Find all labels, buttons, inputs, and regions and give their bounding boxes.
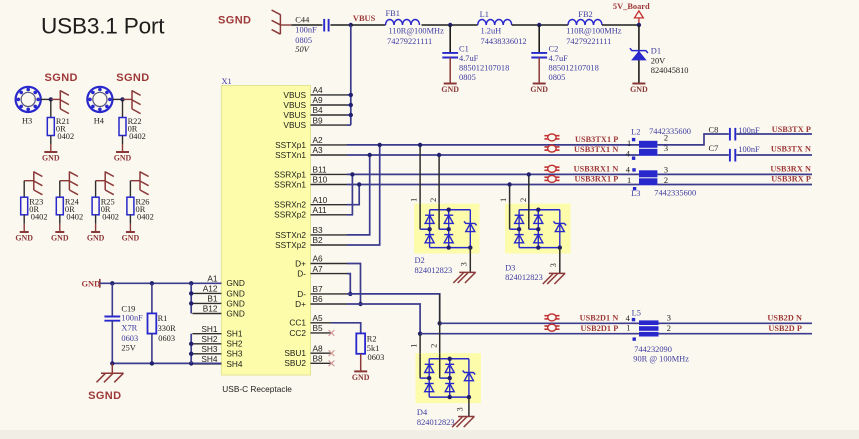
svg-text:0402: 0402 [57,132,74,141]
svg-text:A1: A1 [207,274,218,284]
svg-text:C2: C2 [549,45,559,54]
net label USB3TX1 N [574,145,618,154]
net label USB3TX1 P [575,135,618,144]
svg-text:5k1: 5k1 [367,344,380,353]
svg-text:GND: GND [226,278,244,288]
svg-text:GND: GND [122,234,140,243]
svg-text:B12: B12 [203,304,218,314]
wire TX N [657,154,728,156]
svg-text:B4: B4 [313,105,324,115]
wire USB2 P right [659,333,813,335]
pin B6 D+ [295,294,347,309]
svg-text:A5: A5 [313,313,324,323]
node VBUS [349,14,376,27]
wire [512,24,568,26]
svg-text:B11: B11 [313,165,328,175]
pin B12 GND [192,304,244,319]
svg-text:L5: L5 [632,308,641,317]
svg-text:SH1: SH1 [201,324,218,334]
power port 5V_Board [613,2,650,25]
wire D3 pin2 [527,172,531,203]
svg-text:H3: H3 [22,117,32,126]
pin 3 of D2 [460,248,471,273]
wire [449,25,451,53]
pin A8 SBU1 [284,343,331,358]
SGND label top [218,15,251,27]
svg-text:A4: A4 [313,85,324,95]
svg-text:USB2D N: USB2D N [767,314,802,323]
svg-text:GND: GND [82,280,101,289]
pin label 2 of D4 [430,344,439,348]
svg-text:1: 1 [627,139,631,148]
ground GND under R24 [51,232,69,243]
svg-text:A3: A3 [313,145,324,155]
no-connect X on SBU2 [329,360,335,366]
capacitor C2 4.7uF 885012107018 0805 [531,45,598,82]
svg-text:SGND: SGND [218,15,251,27]
svg-text:744232090: 744232090 [634,345,672,354]
svg-text:824045810: 824045810 [651,66,689,75]
wire [151,334,153,364]
SGND chassis symbol above R25 [96,171,114,194]
svg-text:90R @ 100MHz: 90R @ 100MHz [633,355,689,364]
wire D- A7 join B7 [347,274,352,296]
pin label 2 of D3 [519,198,528,202]
svg-text:C1: C1 [459,45,469,54]
svg-text:A9: A9 [313,95,324,105]
ground GND under C2 [530,84,548,95]
wire [23,215,25,232]
svg-text:50V: 50V [295,45,309,54]
svg-text:B6: B6 [313,294,324,304]
svg-text:SSTXp2: SSTXp2 [275,240,306,250]
wire [360,354,362,371]
SGND chassis symbol at H4 [123,90,141,113]
svg-text:GND: GND [114,154,132,163]
ground GND under C1 [441,84,459,95]
svg-text:USB3TX N: USB3TX N [771,144,811,153]
svg-text:3: 3 [456,407,465,411]
capacitor C19 100nF X7R 0603 25V [104,304,143,352]
svg-text:CC2: CC2 [289,328,306,338]
mounting hole H3 [16,87,41,126]
svg-text:SH1: SH1 [226,329,243,339]
pin B9 VBUS [283,115,347,130]
pin label 2 of D2 [429,198,438,202]
wire SSTXp1 (USB3TX1_P) [347,144,639,146]
svg-text:GND: GND [226,298,244,308]
svg-text:USB3RX1 P: USB3RX1 P [575,175,619,184]
pin A6 D+ [295,254,347,269]
svg-text:GND: GND [226,308,244,318]
no-connect X on CC2 [329,330,335,336]
SGND chassis symbol at H3 [51,90,69,113]
svg-text:74279221111: 74279221111 [387,37,432,46]
wire D+ A6 join B6 [347,264,363,307]
svg-text:USB3TX P: USB3TX P [772,125,811,134]
connector X1 USB-C Receptacle [221,77,310,394]
svg-text:100nF: 100nF [295,26,317,35]
svg-text:0603: 0603 [368,353,385,362]
svg-text:B3: B3 [313,225,324,235]
pin A4 VBUS [283,85,347,100]
svg-text:1: 1 [410,344,419,348]
svg-text:GND: GND [15,234,33,243]
svg-text:330R: 330R [158,324,177,333]
pin A10 SSRXn2 [274,195,347,210]
svg-text:2: 2 [664,134,668,143]
wire [736,154,812,156]
svg-text:A8: A8 [313,343,324,353]
wire VBUS bus [347,25,351,125]
svg-text:20V: 20V [651,57,665,66]
wire SSRXp1 (USB3RX1_N) [347,173,639,175]
wire [113,98,123,100]
pin B4 VBUS [283,105,347,120]
ground GND under R26 [122,232,140,243]
ground GND under R23 [15,232,33,243]
svg-text:B5: B5 [313,323,324,333]
svg-text:0402: 0402 [129,132,146,141]
wire RX P right [657,184,812,186]
wire GND rail [100,282,222,284]
svg-text:0402: 0402 [137,212,154,221]
common mode choke L2 7442335600 [626,127,691,160]
svg-text:VBUS: VBUS [283,120,306,130]
svg-text:SH2: SH2 [226,339,243,349]
wire [449,58,451,84]
node junction at H4 [120,97,124,101]
net label USB3RX N [770,165,811,174]
svg-text:1.2uH: 1.2uH [481,27,502,36]
svg-text:CC1: CC1 [289,318,306,328]
pin SH2 SH2 [192,334,243,349]
wire [602,24,639,26]
wire SSTXn1 (USB3TX1_N) [347,154,639,156]
net label USB2D1 P [581,324,619,333]
ground GND under R2 [352,371,370,382]
resistor R21 0R 0402 [47,117,74,141]
svg-text:B9: B9 [313,115,324,125]
wire [151,283,153,313]
svg-text:USB3TX1 P: USB3TX1 P [575,135,618,144]
svg-text:1: 1 [410,198,419,202]
wire USB2D1_P line [420,333,639,335]
svg-text:0402: 0402 [66,212,83,221]
chassis ground under D2 [453,272,475,283]
ESD diode array D4 824012823 [416,353,481,427]
inductor L1 1.2uH 74438336012 [478,10,527,46]
capacitor C44 100nF 0805 50V [295,16,328,54]
chassis ground under D3 [543,273,565,284]
pin 3 of D3 [549,248,560,274]
svg-text:0805: 0805 [295,36,312,45]
wire SSRXn1 (USB3RX1_P) [347,184,639,186]
svg-text:110R@100MHz: 110R@100MHz [389,27,445,36]
pin A1 GND [192,274,244,289]
svg-text:L3: L3 [631,189,640,198]
svg-text:0805: 0805 [459,73,476,82]
svg-text:0805: 0805 [549,73,566,82]
wire RX N right [657,173,812,175]
svg-text:VBUS: VBUS [353,14,376,23]
wire D2 pin1 [418,143,422,204]
svg-text:B10: B10 [313,175,328,185]
zener diode D1 20V 824045810 [630,46,689,74]
wire [50,136,52,152]
svg-text:C44: C44 [295,16,310,25]
svg-text:2: 2 [430,344,439,348]
wire [59,215,61,232]
wire GND pin bus [189,283,193,313]
wire [122,136,124,152]
node junction at H3 [49,97,53,101]
chassis ground under D4 [452,417,474,428]
pin A7 D- [297,264,347,279]
svg-text:25V: 25V [121,343,135,352]
svg-text:USB2D1 N: USB2D1 N [580,314,619,323]
svg-text:X7R: X7R [121,324,137,333]
svg-text:VBUS: VBUS [283,110,306,120]
svg-text:885012107018: 885012107018 [459,64,509,73]
wire [638,25,640,83]
capacitor C8 100nF [709,126,761,141]
ferrite bead FB1 110R@100MHz 74279221111 [386,9,445,46]
wire SSRXp2 join [347,172,355,215]
pin SH3 SH3 [192,344,243,359]
svg-text:D4: D4 [417,408,428,417]
SGND chassis symbol above R23 [24,171,42,194]
ground GND under D1 [630,84,648,95]
svg-text:D3: D3 [505,264,515,273]
svg-text:1: 1 [499,198,508,202]
no-connect X on SBU1 [329,350,335,356]
wire [422,24,478,26]
net label USB3TX N [771,144,811,153]
node junctions bottom rail [110,361,193,365]
svg-text:824012823: 824012823 [505,273,543,282]
pin SH4 SH4 [192,354,243,369]
svg-text:D+: D+ [295,258,306,268]
wire [129,215,131,232]
net label USB3RX1 P [575,175,619,184]
svg-text:A11: A11 [313,205,328,215]
wire bottom SGND rail [112,362,221,364]
pin label 1 of D4 [410,344,419,348]
svg-text:74279221111: 74279221111 [566,37,611,46]
SGND chassis symbol above R24 [60,171,78,194]
wire SSRXn2 join [347,182,361,204]
wire [330,24,350,26]
svg-text:5V_Board: 5V_Board [613,2,650,11]
pin A5 CC1 [289,313,331,328]
svg-text:A6: A6 [313,254,324,264]
svg-text:A7: A7 [313,264,324,274]
svg-text:USB-C Receptacle: USB-C Receptacle [222,384,292,394]
svg-text:824012823: 824012823 [417,418,455,427]
svg-text:SH3: SH3 [201,344,218,354]
resistor R23 0R 0402 [21,197,48,221]
svg-text:USB3RX P: USB3RX P [771,175,811,184]
pin A9 VBUS [283,95,347,110]
pin B2 SSTXp2 [275,235,347,250]
svg-text:D-: D- [297,289,306,299]
wire [50,99,52,117]
resistor R24 0R 0402 [56,197,83,221]
differential pair marker USB3RX1 N [544,165,559,172]
svg-text:SSRXp1: SSRXp1 [274,169,306,179]
svg-text:3: 3 [549,263,558,267]
svg-text:3: 3 [664,166,668,175]
wire [95,215,97,232]
pin B1 GND [192,294,244,309]
svg-text:0603: 0603 [158,334,175,343]
differential pair marker USB2D1 P [544,324,559,331]
differential pair marker USB3RX1 P [544,175,559,182]
svg-text:USB3RX1 N: USB3RX1 N [574,165,619,174]
SGND label bottom [88,390,121,402]
wire D- to USB2 pair [347,294,442,326]
svg-text:7442335600: 7442335600 [654,189,696,198]
svg-text:L2: L2 [631,128,640,137]
svg-text:SGND: SGND [88,390,121,402]
resistor R1 330R 0603 [148,313,177,343]
svg-text:SSTXp1: SSTXp1 [275,140,306,150]
svg-text:2: 2 [664,176,668,185]
capacitor C7 100nF [709,144,761,162]
svg-text:4.7uF: 4.7uF [549,54,569,63]
svg-text:SSRXp2: SSRXp2 [274,210,306,220]
svg-text:2: 2 [429,198,438,202]
svg-text:C7: C7 [709,144,719,153]
svg-text:USB2D P: USB2D P [768,324,802,333]
svg-text:100nF: 100nF [738,145,760,154]
pin A11 SSRXp2 [274,205,347,220]
svg-text:SGND: SGND [45,72,78,84]
svg-text:0402: 0402 [102,212,119,221]
wire USB2 N right [659,322,813,324]
wire CC1 to R2 [332,323,361,334]
wire [291,24,322,26]
svg-text:4.7uF: 4.7uF [459,54,479,63]
differential pair marker USB3TX1 P [544,134,559,141]
wire SSTXp2 join [347,143,382,245]
svg-text:0603: 0603 [121,334,138,343]
wire SH pin bus [189,334,193,364]
ground GND under R22 [114,152,132,163]
pin 3 of D4 [456,397,469,416]
common mode choke L3 7442335600 [626,166,696,199]
svg-text:GND: GND [42,154,60,163]
node junctions on VBUS bus [349,93,353,118]
svg-text:B1: B1 [207,294,218,304]
svg-text:H4: H4 [94,117,105,126]
svg-text:C8: C8 [709,126,719,135]
svg-text:SH2: SH2 [201,334,218,344]
pin label 1 of D3 [499,198,508,202]
wire D3 pin1 [507,182,511,203]
ground GND under R25 [87,232,105,243]
net label USB2D P [768,324,802,333]
resistor R22 0R 0402 [119,117,146,141]
wire D4 pin2 [439,294,441,353]
net label USB3RX P [771,175,811,184]
svg-text:7442335600: 7442335600 [649,127,691,136]
net label USB2D1 N [580,314,619,323]
pin label 1 of D2 [410,198,419,202]
svg-text:FB1: FB1 [386,9,400,18]
ESD diode array D2 824012823 [414,204,479,275]
svg-text:74438336012: 74438336012 [481,37,527,46]
svg-text:3: 3 [460,262,469,266]
SGND label over H4 [116,72,149,84]
svg-text:SSRXn2: SSRXn2 [274,200,306,210]
wire [23,181,25,198]
svg-text:B8: B8 [313,354,324,364]
svg-text:GND: GND [87,234,105,243]
svg-text:USB3TX1 N: USB3TX1 N [574,145,618,154]
SGND chassis symbol bottom [97,363,124,382]
svg-text:X1: X1 [222,77,232,86]
net label USB3TX P [772,125,811,134]
ferrite bead FB2 110R@100MHz 74279221111 [566,10,622,46]
svg-text:A10: A10 [313,195,328,205]
svg-text:SSRXn1: SSRXn1 [274,179,306,189]
svg-text:A2: A2 [313,135,324,145]
wire USB2D1_N line [440,322,639,324]
svg-text:100nF: 100nF [121,313,143,322]
svg-text:B7: B7 [313,284,324,294]
svg-text:SBU2: SBU2 [284,358,306,368]
svg-text:824012823: 824012823 [415,266,453,275]
wire [351,24,386,26]
wire [111,283,113,316]
pin B5 CC2 [289,323,331,338]
resistor R2 5k1 0603 [356,333,384,362]
wire [736,133,812,135]
node junction C1 [448,23,452,27]
svg-text:SH3: SH3 [226,349,243,359]
svg-text:C19: C19 [121,304,135,313]
svg-text:GND: GND [226,288,244,298]
pin B3 SSTXn2 [275,225,347,240]
svg-text:GND: GND [51,234,69,243]
svg-text:SSTXn2: SSTXn2 [275,230,306,240]
svg-text:1: 1 [626,324,630,333]
wire D4 pin1 [419,334,421,354]
wire TX P jog [657,134,728,145]
svg-text:USB3RX N: USB3RX N [770,165,811,174]
svg-text:GND: GND [441,85,459,94]
wire [111,321,113,364]
net label USB2D N [767,314,802,323]
ground GND under R21 [42,152,60,163]
SGND chassis symbol top [272,10,292,34]
svg-text:0402: 0402 [31,212,48,221]
svg-text:1: 1 [627,176,631,185]
SGND label over H3 [45,72,78,84]
power port GND left [82,279,101,289]
pin A3 SSTXn1 [275,145,347,160]
pin B11 SSRXp1 [274,165,347,180]
svg-text:SSTXn1: SSTXn1 [275,150,306,160]
svg-text:R1: R1 [158,314,168,323]
svg-text:D2: D2 [415,256,425,265]
svg-text:SH4: SH4 [226,359,243,369]
node junction C2 [537,23,541,27]
pin A2 SSTXp1 [275,135,347,150]
differential pair marker USB3TX1 N [544,145,559,152]
